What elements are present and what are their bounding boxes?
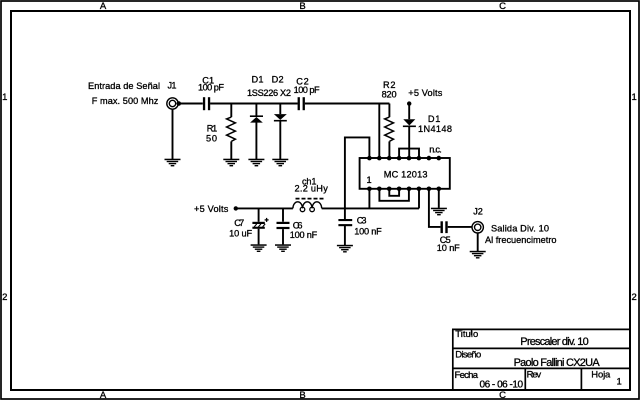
- svg-text:100 nF: 100 nF: [354, 226, 382, 236]
- svg-text:2: 2: [2, 292, 7, 303]
- svg-text:A: A: [100, 390, 107, 400]
- svg-text:F max. 500 Mhz: F max. 500 Mhz: [92, 96, 159, 106]
- svg-text:J1: J1: [168, 81, 177, 91]
- svg-text:R1: R1: [207, 124, 218, 134]
- svg-text:C: C: [499, 390, 506, 400]
- svg-text:D1: D1: [428, 114, 441, 124]
- svg-text:+5 Volts: +5 Volts: [194, 204, 229, 214]
- svg-text:2.2 uHy: 2.2 uHy: [295, 184, 329, 194]
- svg-text:D2: D2: [272, 74, 284, 84]
- svg-text:Al frecuencimetro: Al frecuencimetro: [485, 235, 557, 245]
- svg-text:1N4148: 1N4148: [418, 124, 452, 134]
- svg-text:C6: C6: [293, 220, 303, 230]
- svg-text:Diseño: Diseño: [455, 349, 481, 360]
- svg-text:2: 2: [632, 292, 637, 303]
- svg-text:Entrada de Señal: Entrada de Señal: [88, 81, 160, 91]
- svg-text:C3: C3: [357, 216, 367, 226]
- svg-text:Rev: Rev: [527, 370, 542, 381]
- svg-text:A: A: [100, 1, 107, 12]
- svg-text:1SS226 X2: 1SS226 X2: [247, 88, 291, 98]
- svg-text:1: 1: [617, 377, 622, 388]
- svg-text:B: B: [299, 1, 305, 12]
- svg-text:C7: C7: [234, 218, 244, 228]
- svg-text:Paolo Fallini CX2UA: Paolo Fallini CX2UA: [514, 357, 601, 369]
- svg-text:D1: D1: [252, 74, 264, 84]
- svg-text:B: B: [299, 390, 305, 400]
- svg-text:C: C: [499, 1, 506, 12]
- svg-text:10 uF: 10 uF: [229, 229, 252, 239]
- svg-text:+5 Volts: +5 Volts: [408, 88, 442, 98]
- svg-text:50: 50: [206, 134, 217, 144]
- svg-text:J2: J2: [473, 206, 483, 216]
- svg-text:Salida Div. 10: Salida Div. 10: [491, 224, 549, 234]
- svg-text:100 nF: 100 nF: [290, 230, 318, 240]
- svg-text:Titulo: Titulo: [455, 329, 478, 340]
- svg-text:n.c.: n.c.: [429, 145, 442, 155]
- svg-text:06 - 06 -10: 06 - 06 -10: [480, 380, 524, 391]
- svg-text:Fecha: Fecha: [455, 370, 479, 381]
- svg-text:820: 820: [382, 89, 397, 99]
- svg-text:Hoja: Hoja: [591, 370, 611, 381]
- svg-text:100 pF: 100 pF: [198, 83, 224, 93]
- svg-text:MC 12013: MC 12013: [384, 170, 428, 180]
- svg-text:1: 1: [632, 92, 637, 103]
- svg-text:1: 1: [367, 175, 372, 185]
- svg-text:Prescaler div. 10: Prescaler div. 10: [520, 336, 588, 348]
- svg-text:10 nF: 10 nF: [437, 243, 460, 253]
- svg-text:1: 1: [2, 92, 7, 103]
- svg-text:100 pF: 100 pF: [294, 85, 320, 95]
